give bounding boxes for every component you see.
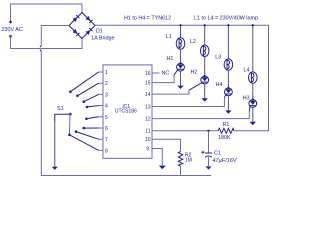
wire H3 cathode to arrow [252, 107, 254, 121]
svg-text:UTCS186: UTCS186 [115, 109, 137, 115]
wire C1 bottom to ground arrow [208, 157, 210, 166]
wire H2 cathode to arrow [204, 84, 206, 98]
svg-text:C1: C1 [214, 150, 221, 156]
svg-text:S1: S1 [57, 106, 64, 112]
diode D1 bottom-right [86, 28, 93, 35]
pin 14 number [145, 92, 151, 98]
lamp L3 [224, 59, 233, 70]
arrow pin 9 ground [159, 166, 166, 170]
wire contact 7 to pin 7 [75, 130, 99, 139]
wire lamp L3 to SCR H4 [227, 70, 229, 88]
label IC1 [122, 104, 130, 110]
pin 8 stub [99, 148, 109, 154]
wire pin to H3 gate [152, 106, 250, 118]
pin 12 number [145, 116, 151, 122]
svg-text:13: 13 [145, 104, 151, 110]
svg-text:H3: H3 [243, 96, 250, 102]
diode D1 bottom-left [73, 29, 80, 36]
wire contact 4 to pin 4 [86, 106, 99, 109]
wire contact 5 to pin 5 [85, 117, 98, 120]
svg-text:10: 10 [145, 137, 151, 143]
wire contact 2 to pin 2 [76, 83, 98, 97]
svg-text:15: 15 [145, 80, 151, 86]
wire pin 9 to ground arrow [152, 149, 162, 166]
label H1 [167, 56, 174, 62]
node lamp L3 rail junction [227, 24, 229, 26]
pin 2 stub [99, 81, 109, 87]
node S1 pole [69, 113, 72, 116]
svg-text:L4: L4 [244, 68, 250, 74]
wire pin 10 to R2 [152, 139, 181, 151]
svg-text:H1 to H4 = TYN612: H1 to H4 = TYN612 [124, 16, 171, 22]
node AC top terminal [9, 21, 12, 24]
pin 11 number [145, 129, 150, 135]
thyristor H3 [249, 98, 257, 107]
label H1 to H4 = TYN612 [124, 16, 171, 22]
arrow C1 ground [206, 166, 212, 169]
svg-text:H2: H2 [191, 69, 198, 75]
svg-text:1A Bridge: 1A Bridge [91, 35, 114, 41]
pin 16 number [145, 71, 151, 77]
diode D1 top-left [73, 15, 80, 22]
wire rail to lamp L1 [180, 25, 182, 38]
svg-text:L2: L2 [190, 39, 196, 45]
wire DC minus from bridge left corner down to ground rail with hop [40, 26, 211, 176]
label 230V AC [2, 27, 23, 33]
wire rail to lamp L3 [227, 25, 229, 59]
wire contact 6 to pin 6 [83, 127, 99, 130]
arrow S1 ground [52, 167, 58, 170]
label 1M [185, 157, 192, 163]
pin 5 stub [99, 115, 109, 121]
wire lamp L4 to SCR H3 [252, 83, 254, 99]
svg-text:H4: H4 [216, 82, 223, 88]
wire pin 11 to R1 [152, 130, 218, 132]
pin 13 number [145, 104, 151, 110]
pin 4 stub [99, 104, 109, 110]
label H4 [216, 82, 223, 88]
pin 3 stub [99, 92, 109, 98]
wire DC plus top rail and right rail to R1 [95, 25, 269, 131]
wire pin to H4 gate [152, 95, 226, 107]
svg-text:12: 12 [145, 116, 151, 122]
label L1 to L4 = 230V/40W lamp [194, 16, 258, 22]
node R1 C1 junction [207, 130, 209, 132]
node lamp L1 rail junction [179, 24, 181, 26]
svg-text:9: 9 [146, 147, 149, 153]
svg-text:47µF/16V: 47µF/16V [213, 158, 238, 164]
diode D1 top-right [86, 16, 93, 23]
IC IC1 UTCS186 body [103, 65, 152, 158]
capacitor C1 polarized [202, 151, 213, 157]
node AC bottom terminal [9, 35, 12, 38]
resistor R1 180K [218, 128, 234, 133]
label 47uF/16V [213, 158, 238, 164]
svg-text:4: 4 [105, 104, 108, 110]
svg-text:NC: NC [162, 71, 170, 77]
wire AC bottom from source to bridge [11, 36, 83, 48]
wire rail to lamp L4 [252, 25, 254, 72]
pin 6 stub [99, 126, 109, 132]
wire rail to lamp L2 [204, 25, 206, 45]
wire contact 3 to pin 3 [83, 94, 99, 103]
label L1 [166, 34, 172, 40]
svg-text:R1: R1 [223, 122, 230, 128]
label L2 [190, 39, 196, 45]
arrow H3 cathode down [250, 122, 256, 125]
label C1 [214, 150, 221, 156]
node lamp L4 rail junction [252, 24, 254, 26]
arrow H1 cathode down [177, 86, 183, 89]
label NC [162, 71, 170, 77]
wire contact 1 to pin 1 [69, 72, 98, 93]
label L4 [244, 68, 250, 74]
wire R2 bottom to ground rail [180, 166, 182, 175]
svg-text:14: 14 [145, 92, 151, 98]
arrow H4 cathode down [225, 110, 231, 113]
svg-text:7: 7 [105, 137, 108, 143]
wire H1 cathode to arrow [180, 71, 182, 86]
svg-text:5: 5 [105, 115, 108, 121]
label D1 [96, 29, 103, 35]
thyristor H1 [177, 62, 185, 71]
pin 15 number [145, 80, 151, 86]
label S1 [57, 106, 64, 112]
label H2 [191, 69, 198, 75]
wire AC top from source to bridge [11, 4, 83, 22]
lamp L2 [200, 45, 209, 56]
resistor R2 1M [178, 151, 182, 166]
lamp L1 [176, 38, 185, 49]
lamp L4 [249, 72, 258, 83]
label R2 [185, 153, 192, 159]
svg-text:230V AC: 230V AC [2, 27, 23, 33]
thyristor H4 [225, 87, 233, 96]
pin 1 stub [99, 70, 109, 76]
wire pin to H2 gate [152, 83, 202, 94]
label L3 [215, 55, 221, 61]
svg-text:11: 11 [145, 129, 150, 135]
svg-text:L1 to L4 = 230V/40W lamp: L1 to L4 = 230V/40W lamp [194, 16, 258, 22]
bridge rectifier D1 diamond [69, 13, 95, 39]
switch S1 wiper to contact 8 [68, 114, 71, 135]
svg-text:3: 3 [105, 92, 108, 98]
svg-text:H1: H1 [167, 56, 174, 62]
svg-text:1: 1 [105, 70, 108, 76]
label UTCS186 [115, 109, 137, 115]
label 1A Bridge [91, 35, 114, 41]
svg-text:2: 2 [105, 81, 108, 87]
svg-text:16: 16 [145, 71, 151, 77]
label 180K [218, 135, 231, 141]
wire pin 16 stub [152, 72, 160, 74]
wire H4 cathode to arrow [227, 96, 229, 111]
label R1 [223, 122, 230, 128]
svg-text:8: 8 [105, 148, 108, 154]
pin 7 stub [99, 137, 109, 143]
wire lamp L1 to SCR H1 [180, 49, 182, 63]
arrow H2 cathode down [202, 98, 208, 101]
svg-text:D1: D1 [96, 29, 103, 35]
pin 9 number [146, 147, 149, 153]
svg-text:1M: 1M [185, 157, 192, 163]
wire C1 top [208, 131, 210, 153]
thyristor H2 [201, 75, 209, 84]
switch S1 pole wire to ground [55, 114, 71, 167]
wire contact 8 to pin 8 [68, 134, 98, 151]
svg-text:6: 6 [105, 126, 108, 132]
node lamp L2 rail junction [204, 24, 206, 26]
pin 10 number [145, 137, 151, 143]
wire pin to H1 gate [152, 70, 178, 83]
svg-text:L1: L1 [166, 34, 172, 40]
label H3 [243, 96, 250, 102]
svg-text:180K: 180K [218, 135, 231, 141]
wire lamp L2 to SCR H2 [204, 57, 206, 77]
svg-text:L3: L3 [215, 55, 221, 61]
